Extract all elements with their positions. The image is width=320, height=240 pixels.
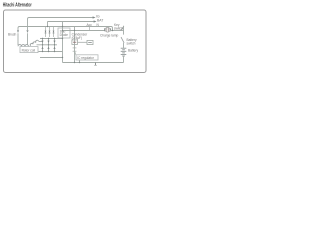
charge lamp circle	[105, 27, 110, 32]
left brush lead	[17, 28, 19, 30]
sub diode 1	[45, 27, 47, 37]
lamp wire to switch	[111, 30, 124, 32]
IC box ground stub	[79, 60, 81, 63]
wire N: long line y=26.5	[20, 27, 113, 31]
sub diode label box	[58, 28, 70, 38]
wire A vertical (right brush lead)	[27, 19, 29, 30]
transistor marks on vertical	[73, 47, 77, 49]
rectifier top bus	[40, 38, 63, 40]
junction dots	[47, 26, 48, 27]
svg-text:Brush: Brush	[8, 32, 17, 36]
wire B: terminal line y=21.5	[48, 21, 95, 23]
brush (right)	[26, 30, 28, 33]
ground stub	[95, 63, 97, 66]
battery to ground	[123, 56, 125, 63]
arrowhead wire A	[93, 16, 96, 18]
E wire y=57.5	[40, 57, 63, 59]
wire B drop	[47, 22, 49, 27]
svg-text:Hitachi Alternator: Hitachi Alternator	[3, 2, 32, 8]
sub diode 2	[49, 27, 51, 37]
ground bus y=62.5	[63, 62, 124, 64]
rotor label box	[20, 47, 38, 53]
svg-text:Charge lamp: Charge lamp	[100, 33, 118, 37]
lamp connector ticks	[104, 28, 106, 31]
tick above IC box	[75, 52, 77, 54]
outer frame box	[4, 10, 147, 73]
diode column 1	[42, 39, 44, 52]
resistor box right	[78, 41, 88, 43]
svg-text:IC regulator: IC regulator	[77, 56, 95, 60]
sub diode 3	[53, 27, 55, 37]
phase tap 1	[39, 41, 43, 43]
svg-text:Acc: Acc	[87, 23, 93, 27]
svg-text:switch: switch	[114, 27, 123, 31]
diode column 2	[48, 39, 50, 52]
zener box on vertical	[72, 40, 78, 45]
arrowhead wire B	[94, 20, 97, 22]
battery switch	[121, 37, 124, 43]
main vertical x=62.5	[62, 22, 64, 63]
phase bus y=44.8	[37, 44, 58, 46]
rotor field coil bumps	[18, 45, 29, 47]
battery symbol	[121, 47, 127, 49]
wire A: terminal line y=17.5	[29, 17, 93, 19]
N-to-lamp tick	[89, 27, 91, 31]
key switch	[121, 26, 124, 31]
IC regulator box	[76, 55, 98, 60]
svg-text:Diode: Diode	[60, 33, 69, 37]
rectifier bottom bus	[39, 51, 63, 53]
regulator vertical x=74.5	[74, 27, 76, 63]
diode column 3	[54, 39, 56, 52]
svg-text:Battery: Battery	[128, 48, 139, 52]
svg-text:Rotor coil: Rotor coil	[22, 48, 36, 52]
lamp wire y=30.5	[63, 30, 105, 32]
svg-text:switch: switch	[127, 42, 136, 46]
stator winding (diagonal)	[30, 40, 38, 46]
brush (left)	[17, 30, 19, 33]
